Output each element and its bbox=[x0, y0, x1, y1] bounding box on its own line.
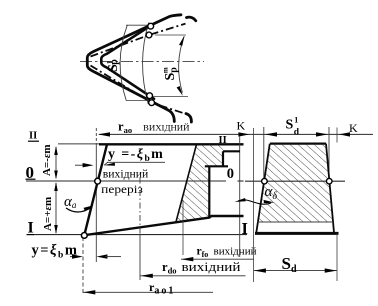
extension line bottom right bbox=[150, 95, 188, 97]
svg-text:A=-εm: A=-εm bbox=[41, 144, 53, 176]
trapezoid bottom thick line bbox=[255, 232, 339, 235]
svg-text:Spm: Spm bbox=[162, 67, 180, 81]
S_d left extension bbox=[253, 128, 255, 282]
r_fo dim line bbox=[181, 258, 254, 260]
hatched tooth area bbox=[176, 144, 223, 222]
section arrow right (points left) bbox=[339, 132, 350, 136]
alpha_a swoosh arrow bbox=[66, 207, 92, 212]
dim line A=-em bbox=[55, 147, 57, 178]
svg-text:K: K bbox=[349, 121, 358, 135]
alpha_delta S-curve arrow bbox=[238, 200, 271, 204]
svg-text:y =-ξbm: y =-ξbm bbox=[108, 147, 164, 164]
r_do extension line bbox=[139, 178, 141, 236]
extension line top left bbox=[126, 24, 151, 26]
hatched trapezoid area bbox=[259, 145, 333, 222]
svg-text:І: І bbox=[242, 219, 248, 238]
svg-text:вихідний: вихідний bbox=[214, 247, 257, 258]
r_do arrowhead bbox=[141, 274, 153, 278]
circle on right edge bbox=[326, 178, 332, 184]
step line y=166.3 bbox=[205, 165, 228, 167]
opposite arrow line bbox=[75, 164, 90, 166]
svg-text:І: І bbox=[28, 220, 34, 237]
Sd1 right arrowhead bbox=[316, 132, 328, 136]
node B circle bbox=[81, 233, 87, 239]
S_d right extension bbox=[336, 234, 338, 282]
svg-text:A=+εm: A=+εm bbox=[42, 197, 54, 231]
r_do dim line bbox=[141, 275, 246, 277]
svg-text:0: 0 bbox=[227, 166, 234, 182]
section arrow left (points right) bbox=[238, 132, 249, 136]
small tick right of Sd1 bbox=[336, 128, 338, 143]
svg-text:вихідний: вихідний bbox=[143, 122, 190, 134]
line I bbox=[33, 234, 247, 236]
S_d right arrowhead bbox=[325, 268, 337, 272]
flank thick line (initial profile) bbox=[84, 144, 107, 235]
dash-dot vertical x=240 bbox=[239, 137, 241, 258]
svg-text:rfo: rfo bbox=[197, 246, 209, 260]
tick Sd1 left bbox=[263, 127, 265, 178]
svg-text:αa: αa bbox=[64, 194, 77, 210]
svg-text:вихідний: вихідний bbox=[103, 166, 149, 180]
node circle bottom 1 bbox=[147, 93, 153, 99]
r_fo arrowhead bbox=[181, 257, 193, 261]
circle on left edge bbox=[262, 178, 268, 184]
svg-text:rdo: rdo bbox=[162, 260, 177, 276]
line II (top thick line) bbox=[58, 143, 99, 145]
dash-dot upper end hook bbox=[187, 17, 196, 21]
inner thick chevron profile bbox=[101, 24, 154, 99]
xi_b m dim arrows bbox=[70, 256, 80, 258]
svg-text:ІІ: ІІ bbox=[219, 135, 227, 146]
S_d dim line bbox=[254, 270, 337, 272]
Sd1 left arrowhead bbox=[265, 132, 277, 136]
trapezoid top edge bbox=[270, 143, 326, 145]
step line y=151 bbox=[223, 150, 240, 152]
svg-text:rao1: rao1 bbox=[149, 280, 175, 297]
root thick line bbox=[84, 216, 243, 235]
svg-text:ІІ: ІІ bbox=[29, 131, 37, 142]
extension line top right bbox=[155, 34, 186, 36]
line 0 bbox=[26, 180, 226, 182]
svg-text:Sd: Sd bbox=[282, 254, 297, 275]
arc C top arrowhead bbox=[179, 36, 184, 46]
trapezoid left edge bbox=[256, 144, 270, 233]
reference horizontal line bbox=[245, 180, 345, 182]
arc C (dimension arc S) bbox=[179, 36, 185, 92]
dash-dot lower end hook bbox=[186, 114, 191, 122]
node circle bottom 2 bbox=[149, 100, 155, 106]
node circle top 2 bbox=[146, 32, 152, 38]
tooth left flank edge bbox=[176, 144, 197, 222]
node circle top 1 bbox=[148, 23, 154, 29]
trapezoid right edge bbox=[326, 144, 334, 233]
svg-text:переріз: переріз bbox=[101, 182, 143, 196]
centerline bbox=[80, 61, 204, 63]
r_ao1 dim line bbox=[83, 291, 213, 293]
svg-text:вихідний: вихідний bbox=[182, 259, 241, 274]
outer thick chevron profile bbox=[87, 15, 181, 122]
dash-dot profile lower arm bbox=[91, 66, 187, 115]
leader arrowhead pointing left bbox=[104, 163, 115, 166]
step vertical x=209.3 bbox=[208, 166, 210, 216]
root level thin line bbox=[258, 221, 334, 223]
K-K / r_ao dimension row bbox=[99, 133, 373, 135]
step vertical x=223 bbox=[222, 151, 224, 166]
dim line A=+em bbox=[55, 183, 57, 233]
svg-text:K: K bbox=[237, 119, 246, 133]
opposite arrowhead pointing right bbox=[83, 163, 94, 167]
dash-dot profile upper arm bbox=[91, 24, 186, 57]
tick Sd1 right bbox=[328, 127, 330, 178]
dashed vertical from bottom node bbox=[82, 237, 84, 293]
node A circle bbox=[95, 178, 101, 184]
svg-text:rao: rao bbox=[118, 120, 132, 136]
leader line under label bbox=[107, 161, 165, 163]
arc A bbox=[120, 25, 127, 100]
arc B bbox=[143, 23, 149, 105]
svg-text:S1p: S1p bbox=[106, 59, 122, 72]
r_ao left arrowhead bbox=[98, 132, 110, 136]
extension line bottom left bbox=[126, 100, 151, 102]
arc C bottom arrowhead bbox=[177, 86, 183, 96]
r_ao1 arrowhead bbox=[83, 290, 95, 294]
S_d left arrowhead bbox=[254, 268, 266, 272]
vertical reference line (initial section) bbox=[95, 128, 97, 144]
r_fo extension line bbox=[182, 200, 184, 255]
svg-text:y=ξbm: y=ξbm bbox=[32, 243, 79, 261]
